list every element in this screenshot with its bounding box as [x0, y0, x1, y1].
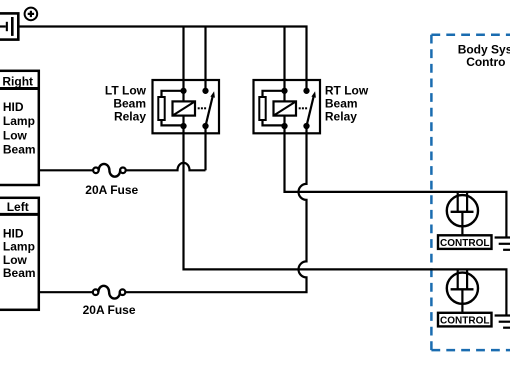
control box 1 [438, 235, 492, 249]
left lamp box (Left HID Lamp Low Beam) [0, 198, 39, 310]
svg-text:Beam: Beam [113, 97, 146, 111]
svg-text:HID: HID [3, 226, 24, 240]
svg-text:20A Fuse: 20A Fuse [83, 303, 136, 317]
wire LT relay coil feed drop [182, 27, 184, 91]
svg-text:CONTROL: CONTROL [440, 316, 489, 327]
control box 2 [438, 313, 492, 327]
svg-text:Right: Right [2, 74, 33, 88]
ground G1 [495, 238, 510, 250]
wire RT relay coil internal vertical [283, 91, 285, 126]
wire LT relay coil internal vertical [182, 91, 184, 126]
ground G2 [495, 316, 510, 328]
LT relay suppression resistor [158, 97, 164, 120]
wire RT relay switch output with hops, to left lamp fuse [39, 126, 307, 292]
wire right lamp feed with hop over LT coil wire [39, 163, 206, 170]
RT relay terminal nodes [281, 88, 309, 129]
right lamp box (Right HID Lamp Low Beam) [0, 71, 39, 185]
svg-text:Low: Low [3, 128, 28, 142]
svg-text:Lamp: Lamp [3, 240, 35, 254]
svg-text:LT Low: LT Low [105, 84, 147, 98]
svg-text:RT Low: RT Low [325, 84, 369, 98]
svg-text:Beam: Beam [3, 266, 36, 280]
svg-text:Beam: Beam [325, 97, 358, 111]
LT relay linkage dots [198, 107, 206, 109]
wire RT relay coil feed drop [283, 27, 285, 91]
LT relay terminal nodes [180, 88, 208, 129]
svg-text:Contro: Contro [466, 55, 505, 69]
driver transistor Q2 [447, 269, 478, 312]
fuse F1 (20A, right lamp) [93, 164, 126, 177]
driver transistor Q1 [447, 192, 478, 235]
svg-text:Beam: Beam [3, 142, 36, 156]
relay LT low beam: outer box [153, 80, 220, 133]
LT relay switch arm [206, 91, 215, 126]
right lamp header label [2, 74, 33, 88]
svg-text:Relay: Relay [114, 110, 146, 124]
wire battery positive bus [18, 27, 306, 91]
fuse F2 label [83, 303, 136, 317]
RT relay linkage dots [299, 107, 307, 109]
LT relay label [105, 84, 147, 124]
wire RT relay coil to driver 1 (with right vertical to ground) [285, 126, 507, 238]
right lamp text [3, 100, 36, 156]
wire LT relay switch output drop [204, 126, 206, 170]
left lamp header label [7, 200, 29, 214]
RT relay coil (operator) [274, 101, 297, 115]
svg-text:Left: Left [7, 200, 29, 214]
fuse F2 (20A, left lamp) [93, 286, 126, 299]
battery [0, 13, 18, 39]
LT relay coil (operator) [173, 101, 196, 115]
RT relay resistor parallel link wires [263, 91, 285, 126]
RT relay suppression resistor [259, 97, 265, 120]
relay RT low beam: outer box [254, 80, 321, 133]
svg-text:Lamp: Lamp [3, 114, 35, 128]
svg-text:HID: HID [3, 100, 24, 114]
RT relay switch arm [307, 91, 316, 126]
fuse F1 label [85, 183, 138, 197]
RT relay label [325, 84, 369, 124]
LT relay resistor parallel link wires [162, 91, 184, 126]
svg-text:Low: Low [3, 253, 28, 267]
wire LT relay switch feed drop [204, 27, 206, 91]
controller label [458, 43, 510, 69]
svg-text:Relay: Relay [325, 110, 357, 124]
battery positive terminal symbol [25, 8, 38, 21]
svg-text:CONTROL: CONTROL [440, 238, 489, 249]
svg-text:20A Fuse: 20A Fuse [85, 183, 138, 197]
controller dashed enclosure (Body System Controller) [431, 35, 510, 350]
wire LT relay coil to driver 2 (with right vertical to ground) [184, 126, 507, 316]
left lamp text [3, 226, 36, 280]
